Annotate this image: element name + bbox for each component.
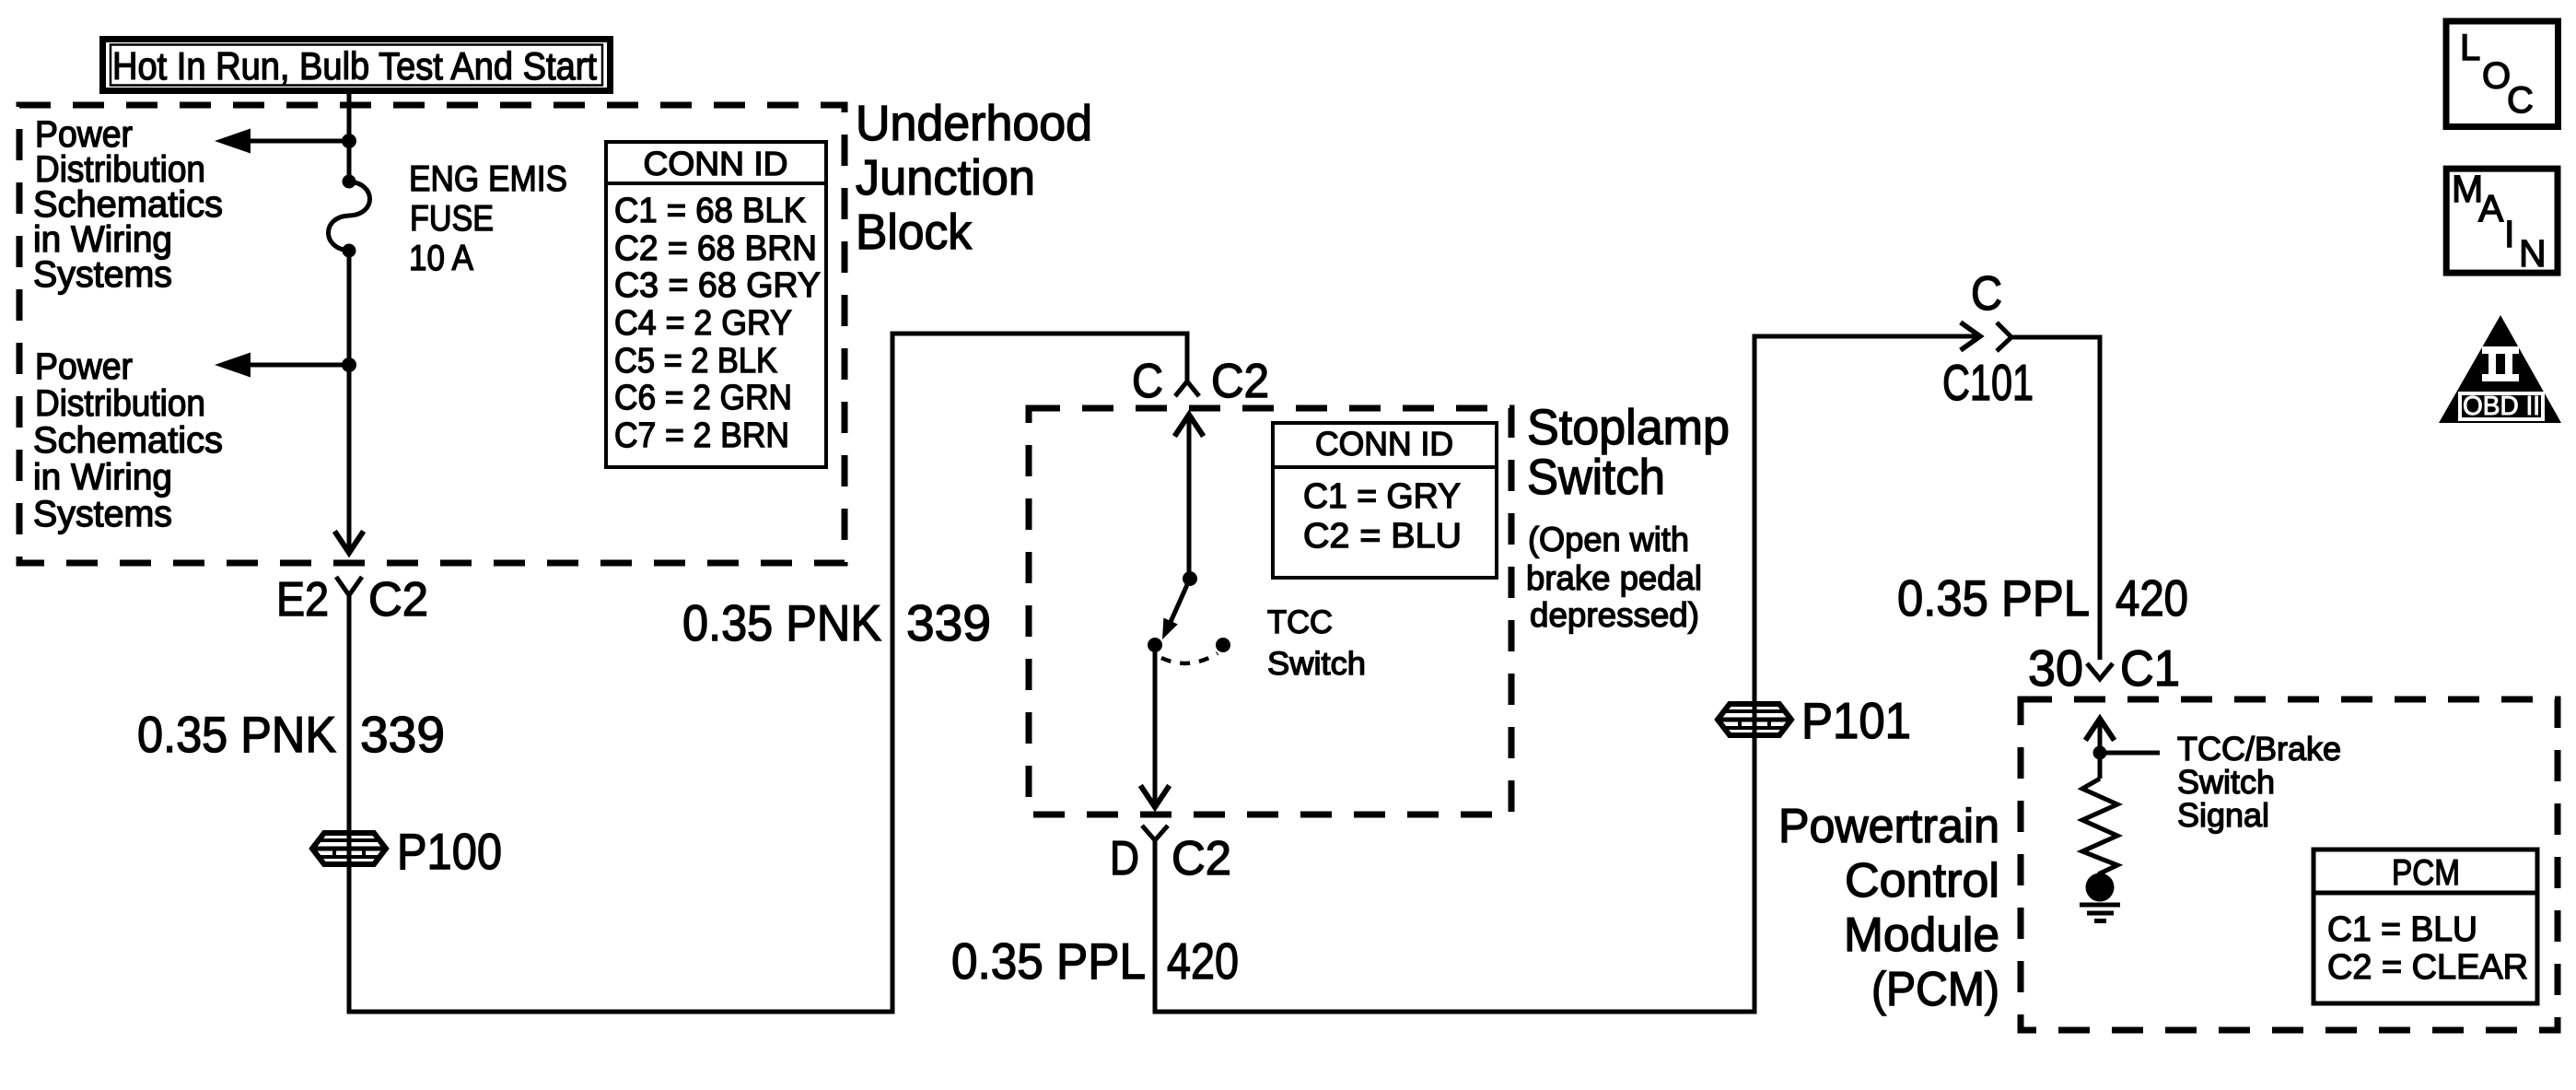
wire into PCM with up arrowhead (2098, 720, 2103, 779)
svg-text:C2: C2 (368, 573, 428, 627)
svg-text:I: I (2504, 213, 2514, 255)
arrowhead at E2 (336, 533, 362, 553)
wire mid vertical up (891, 332, 895, 1014)
svg-text:N: N (2519, 232, 2547, 275)
label Stoplamp Switch (1527, 400, 1730, 505)
svg-text:C6 = 2 GRN: C6 = 2 GRN (614, 379, 792, 417)
svg-text:C7 = 2 BRN: C7 = 2 BRN (614, 416, 789, 455)
svg-text:Systems: Systems (33, 254, 172, 295)
svg-text:C2: C2 (1211, 355, 1269, 408)
connector E2 C2 (276, 573, 428, 627)
resistor (PCM internal pull) (2082, 779, 2117, 875)
svg-text:Hot In Run, Bulb Test And Star: Hot In Run, Bulb Test And Start (112, 44, 597, 88)
node junction dot lower (342, 357, 356, 372)
label ENG EMIS FUSE 10 A (409, 159, 567, 278)
ground (PCM internal) (2080, 873, 2120, 921)
note Power Distribution Schematics in Wiring Systems (lower) (33, 346, 223, 534)
svg-text:Block: Block (856, 205, 973, 260)
svg-text:C1 = BLU: C1 = BLU (2327, 910, 2477, 949)
node TCC/Brake signal tap (2093, 746, 2107, 760)
svg-text:420: 420 (1167, 932, 1239, 990)
stoplamp switch dashed box (1029, 408, 1511, 815)
svg-text:A: A (2478, 187, 2504, 229)
svg-text:Junction: Junction (856, 150, 1035, 205)
svg-text:0.35 PNK: 0.35 PNK (137, 706, 336, 763)
svg-text:TCC/Brake: TCC/Brake (2177, 730, 2341, 768)
svg-text:in Wiring: in Wiring (33, 457, 172, 498)
label TCC/Brake Switch Signal (2177, 730, 2341, 834)
svg-text:C1 = GRY: C1 = GRY (1303, 477, 1461, 516)
svg-text:depressed): depressed) (1530, 596, 1699, 634)
svg-text:Power: Power (35, 346, 133, 387)
svg-text:Switch: Switch (1527, 450, 1665, 505)
svg-text:C1 = 68 BLK: C1 = 68 BLK (614, 192, 806, 230)
OBD II badge (2439, 315, 2561, 423)
wire D down to bottom (1153, 840, 1158, 1014)
svg-text:30: 30 (2028, 639, 2083, 697)
svg-text:339: 339 (360, 706, 445, 763)
svg-text:CONN ID: CONN ID (1315, 425, 1453, 463)
svg-text:(Open with: (Open with (1528, 521, 1689, 558)
svg-text:0.35 PPL: 0.35 PPL (951, 932, 1146, 990)
wire bottom mid run (1153, 1010, 1757, 1014)
svg-text:TCC: TCC (1267, 604, 1333, 640)
fuse ENG EMIS FUSE 10 A (329, 175, 370, 258)
svg-text:OBD II: OBD II (2463, 392, 2540, 421)
wire from C101 to corner and down (2011, 337, 2100, 660)
svg-text:P101: P101 (1801, 692, 1911, 749)
svg-text:P100: P100 (397, 823, 502, 880)
wire drop to stoplamp connector (1185, 334, 1190, 381)
arrow to power distribution (upper) (215, 129, 251, 154)
label TCC Switch (1267, 604, 1366, 682)
wire label 0.35 PNK 339 (middle) (682, 594, 991, 651)
svg-text:Schematics: Schematics (33, 420, 223, 461)
svg-text:10 A: 10 A (409, 239, 473, 278)
svg-text:E2: E2 (276, 573, 329, 627)
svg-text:339: 339 (906, 594, 991, 651)
svg-text:Underhood: Underhood (856, 96, 1092, 151)
svg-text:Control: Control (1845, 854, 1999, 908)
svg-text:C: C (1132, 355, 1163, 408)
connector C C2 (stoplamp top) (1132, 355, 1269, 408)
wire tap to label (2100, 751, 2160, 756)
svg-text:brake pedal: brake pedal (1526, 559, 1702, 597)
splice P101 (1718, 704, 1791, 735)
connector id table CONN ID (stoplamp) (1273, 423, 1497, 578)
svg-text:C3 = 68 GRY: C3 = 68 GRY (614, 266, 821, 305)
svg-text:0.35 PNK: 0.35 PNK (682, 594, 881, 651)
PCM connector table (2314, 850, 2537, 1003)
wire right vertical up (1753, 334, 1757, 1014)
svg-text:PCM: PCM (2392, 853, 2460, 893)
underhood junction block dashed box (19, 105, 845, 563)
wire from fuse down (347, 251, 352, 552)
note Power Distribution Schematics in Wiring Systems (upper) (33, 114, 223, 295)
svg-text:(PCM): (PCM) (1871, 963, 1999, 1016)
wire to upper power distribution arrow (241, 139, 349, 144)
svg-text:CONN ID: CONN ID (644, 145, 788, 182)
svg-text:C2: C2 (1171, 832, 1231, 885)
wire to lower power distribution arrow (241, 363, 349, 368)
svg-text:D: D (1110, 832, 1139, 885)
svg-text:Switch: Switch (2177, 763, 2275, 801)
LOC legend box (2446, 21, 2559, 127)
wire bottom left run (347, 1010, 895, 1014)
wire top right run to C101 (1753, 334, 1981, 339)
connector D C2 (stoplamp bottom) (1110, 826, 1231, 885)
wire label 0.35 PPL 420 (bottom) (951, 932, 1239, 990)
svg-text:C2 = 68 BRN: C2 = 68 BRN (614, 229, 817, 268)
svg-text:Systems: Systems (33, 494, 172, 534)
wire E2 down to bottom (347, 595, 352, 1014)
svg-text:0.35 PPL: 0.35 PPL (1897, 569, 2090, 627)
svg-text:Distribution: Distribution (35, 383, 205, 424)
wire top mid run (891, 332, 1190, 336)
wire label 0.35 PNK 339 (left) (137, 706, 445, 763)
arrow to power distribution (lower) (215, 353, 251, 378)
TCC switch (1148, 571, 1230, 663)
svg-text:C5 = 2 BLK: C5 = 2 BLK (614, 342, 777, 381)
svg-text:L: L (2460, 28, 2480, 68)
wire out of switch with down arrowhead (1153, 651, 1158, 806)
svg-text:Stoplamp: Stoplamp (1527, 400, 1730, 455)
svg-text:Switch: Switch (1267, 646, 1366, 682)
svg-text:C: C (2507, 80, 2534, 121)
connector id table CONN ID (junction block) (606, 142, 826, 467)
svg-text:420: 420 (2116, 569, 2188, 627)
connector 30 C1 (PCM) (2028, 639, 2180, 697)
label Powertrain Control Module (PCM) (1778, 800, 1999, 1016)
svg-text:C4 = 2 GRY: C4 = 2 GRY (614, 304, 792, 343)
PCM dashed box (2021, 699, 2558, 1030)
svg-text:Module: Module (1844, 908, 1999, 962)
header box Hot In Run, Bulb Test And Start (103, 40, 611, 91)
wire into switch with up arrowhead (1187, 415, 1192, 579)
svg-text:FUSE: FUSE (410, 199, 494, 239)
MAIN legend box (2446, 168, 2558, 275)
svg-text:C101: C101 (1942, 354, 2034, 411)
wire label 0.35 PPL 420 (right) (1897, 569, 2188, 627)
svg-text:C: C (1971, 267, 2002, 321)
svg-text:C2 = BLU: C2 = BLU (1303, 517, 1462, 556)
node junction dot upper (342, 134, 356, 148)
note (Open with brake pedal depressed) (1526, 521, 1702, 634)
svg-text:Signal: Signal (2177, 796, 2269, 834)
connector C101 inline (1942, 267, 2034, 411)
splice P100 (312, 833, 386, 864)
label Underhood Junction Block (856, 96, 1092, 260)
svg-text:ENG EMIS: ENG EMIS (409, 159, 567, 199)
svg-text:C1: C1 (2120, 639, 2180, 697)
wire feed from header into junction block (347, 94, 352, 182)
svg-text:C2 = CLEAR: C2 = CLEAR (2327, 948, 2528, 987)
svg-text:Powertrain: Powertrain (1778, 800, 1999, 853)
